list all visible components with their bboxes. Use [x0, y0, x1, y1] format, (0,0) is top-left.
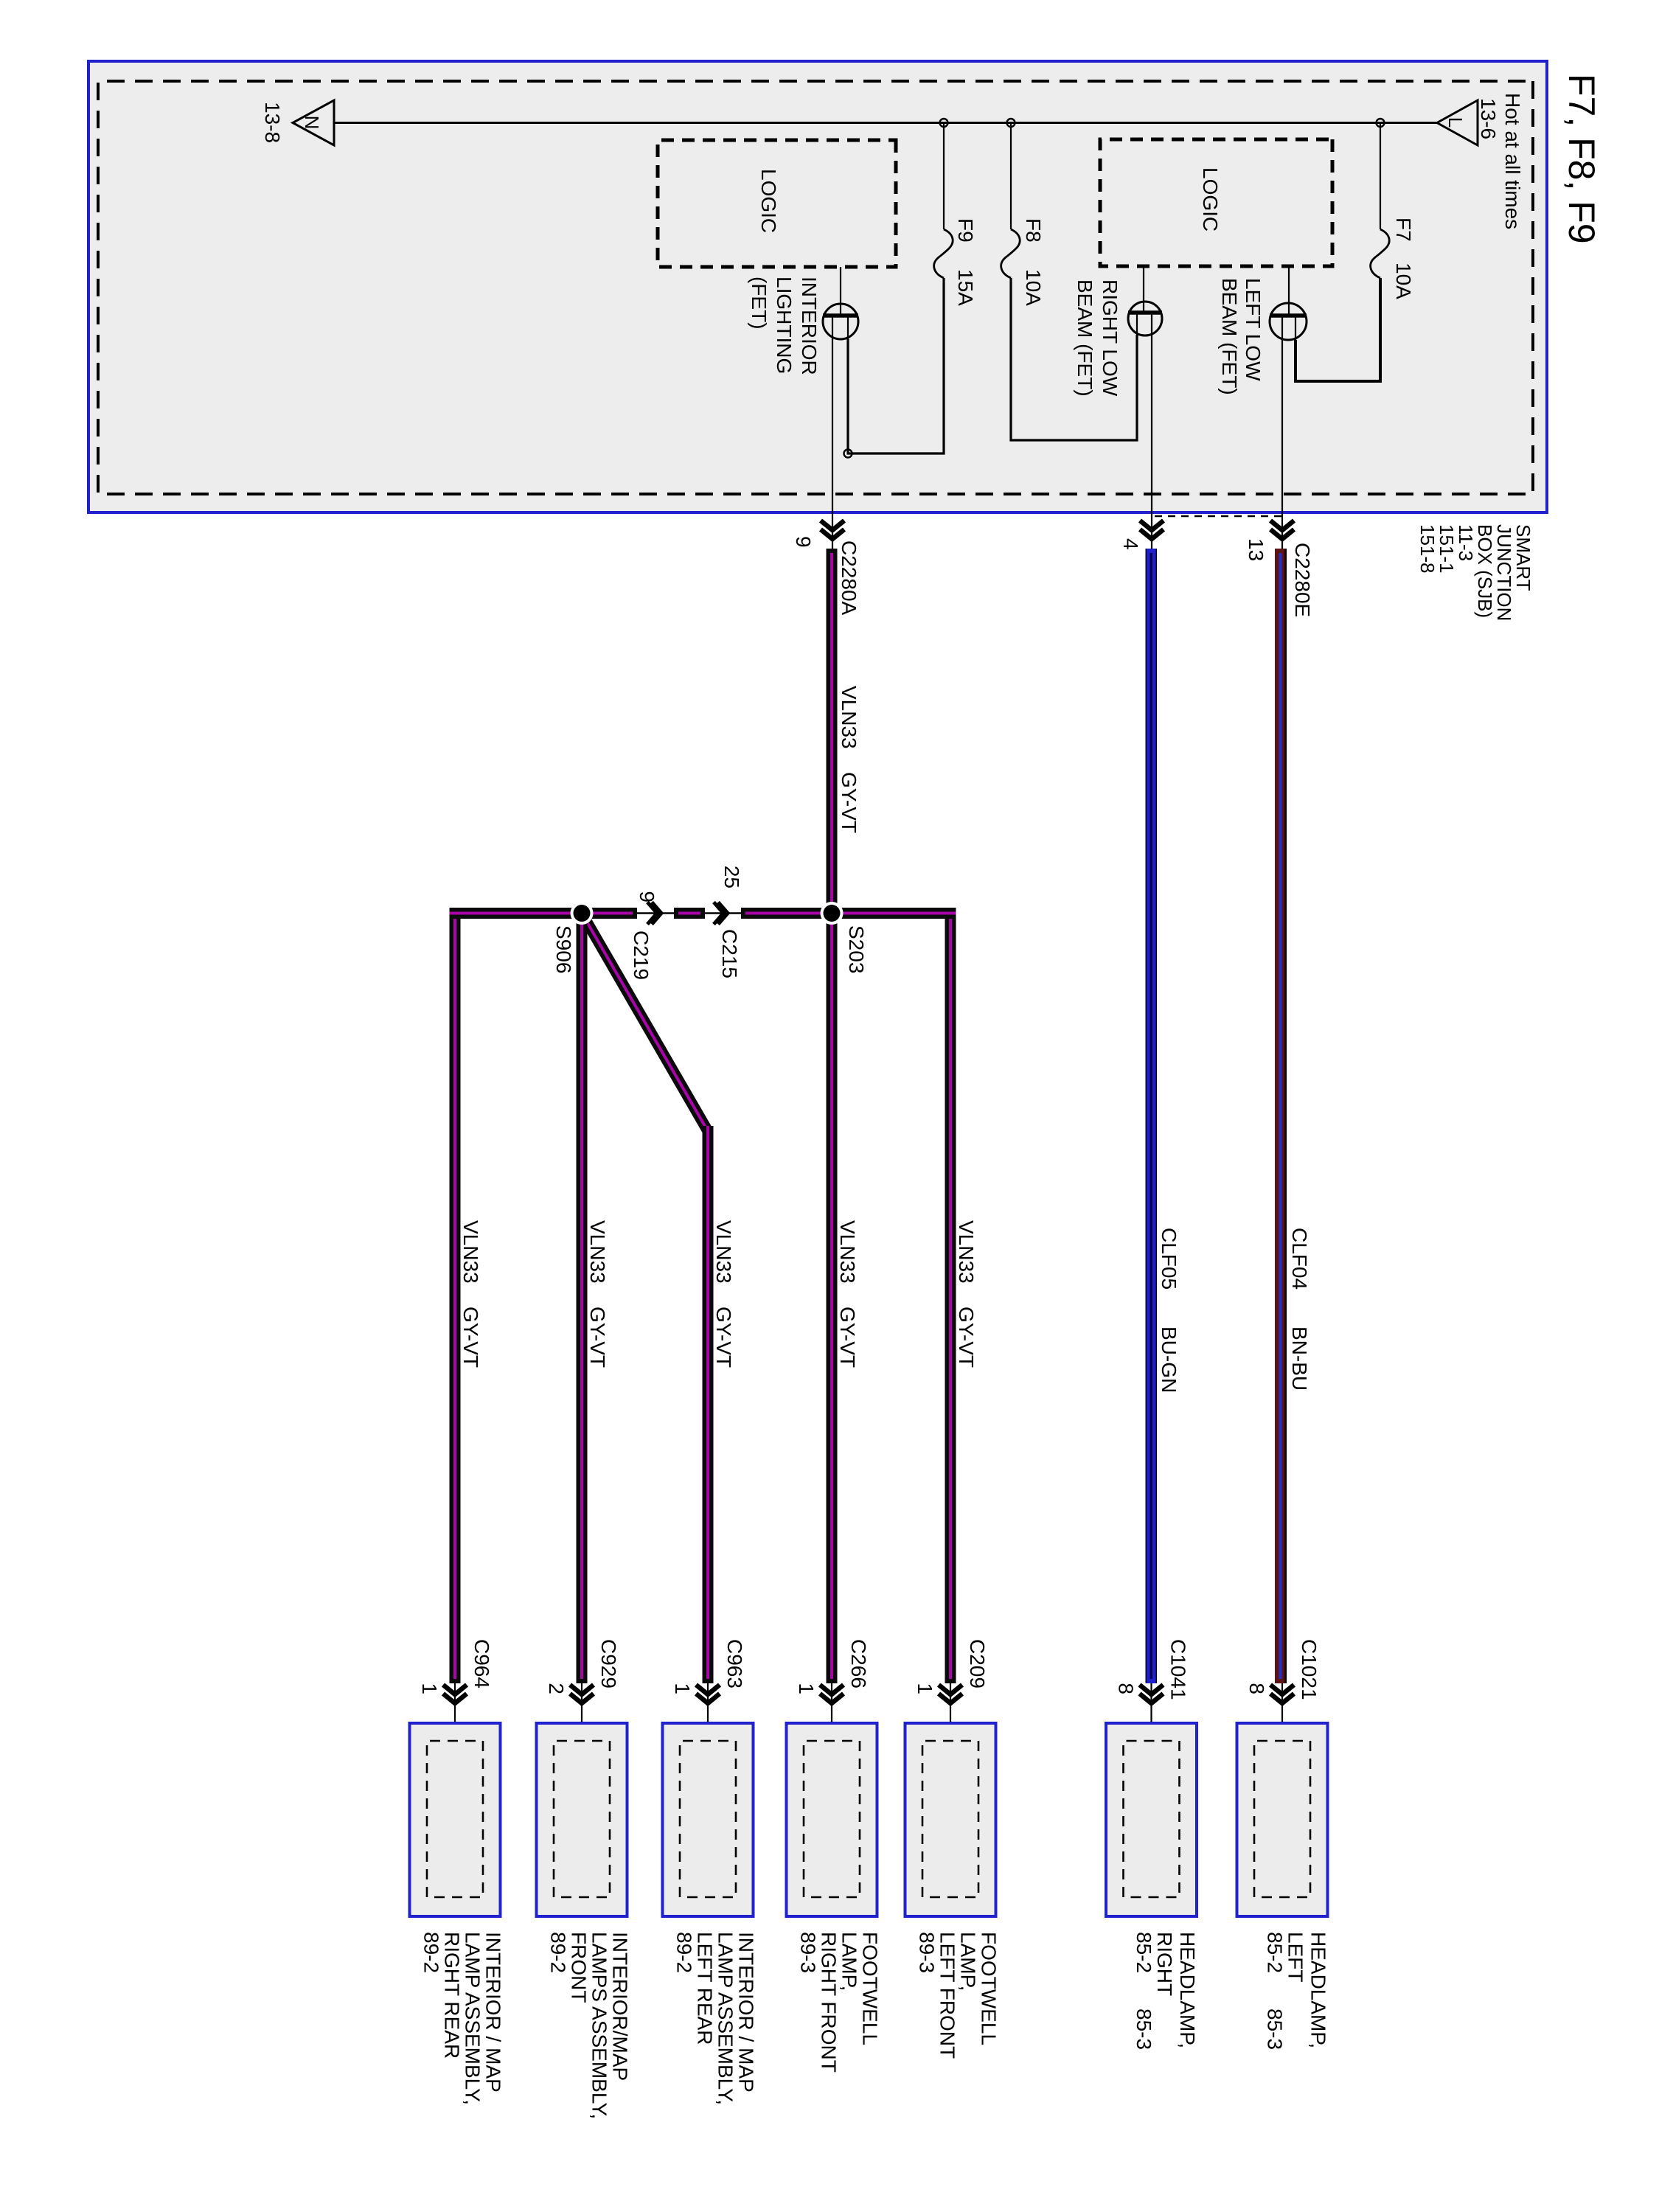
right low beam FET input wire	[1143, 266, 1144, 314]
fuse F7	[1371, 229, 1389, 278]
svg-text:89-3: 89-3	[797, 1932, 820, 1973]
svg-text:CLF04: CLF04	[1288, 1228, 1311, 1290]
svg-text:LOGIC: LOGIC	[1199, 167, 1222, 232]
svg-text:25: 25	[720, 866, 743, 888]
connector C1041 arrow	[1140, 1685, 1164, 1703]
connector C963 arrow	[696, 1685, 720, 1703]
svg-text:C963: C963	[723, 1639, 746, 1688]
inline connector middle segment	[674, 908, 705, 919]
wire bus to fuse F7	[1380, 122, 1381, 229]
svg-text:85-2: 85-2	[1133, 1932, 1155, 1973]
svg-text:FOOTWELL: FOOTWELL	[978, 1932, 1001, 2045]
svg-text:151-8: 151-8	[1416, 524, 1439, 574]
svg-text:8: 8	[1115, 1683, 1138, 1694]
component box C929	[537, 1723, 627, 1916]
component box C209	[905, 1723, 996, 1916]
wire VLN33 branch C963	[703, 1126, 714, 1683]
svg-text:HEADLAMP,: HEADLAMP,	[1176, 1932, 1199, 2048]
svg-text:F7: F7	[1392, 218, 1415, 242]
svg-text:JUNCTION: JUNCTION	[1493, 524, 1515, 621]
svg-text:4: 4	[1119, 538, 1142, 550]
svg-text:BOX (SJB): BOX (SJB)	[1474, 524, 1496, 618]
svg-text:F9: F9	[954, 218, 977, 243]
wire into connector C266	[831, 1683, 832, 1741]
svg-text:VLN33: VLN33	[712, 1220, 735, 1284]
wire into connector C1041	[1150, 1683, 1152, 1741]
svg-text:2: 2	[545, 1683, 568, 1694]
SJB inner dashed border	[98, 81, 1533, 494]
wire bus to fuse F9	[943, 122, 945, 229]
svg-text:C1021: C1021	[1298, 1639, 1321, 1700]
wire into connector C1021	[1281, 1683, 1283, 1741]
component box C1021	[1237, 1723, 1328, 1916]
svg-text:1: 1	[671, 1683, 694, 1694]
interior lighting FET output wire	[832, 316, 833, 549]
interior lighting FET input wire	[840, 267, 841, 316]
wire into connector C963	[707, 1683, 709, 1741]
junction F8 tap	[1007, 119, 1015, 127]
svg-text:89-2: 89-2	[420, 1932, 443, 1973]
wire VLN33 diagonal to C963	[585, 919, 708, 1131]
connector C964 arrow	[443, 1685, 467, 1703]
wire VLN33 branch C964	[450, 919, 461, 1683]
svg-text:89-2: 89-2	[547, 1932, 570, 1973]
svg-text:9: 9	[792, 536, 815, 548]
connector C2280E dashed link	[1152, 515, 1281, 517]
svg-text:GY-VT: GY-VT	[836, 1307, 859, 1368]
svg-text:C2280A: C2280A	[838, 540, 860, 616]
svg-text:89-2: 89-2	[673, 1932, 696, 1973]
junction riser wire VLN33	[741, 908, 956, 919]
svg-text:GY-VT: GY-VT	[459, 1307, 482, 1368]
svg-text:F8: F8	[1022, 218, 1045, 243]
svg-text:10A: 10A	[1022, 269, 1045, 306]
logic box interior lighting	[658, 140, 896, 267]
connector C2280E pin 13 arrow	[1270, 521, 1294, 539]
svg-text:FOOTWELL: FOOTWELL	[859, 1932, 882, 2045]
svg-text:10A: 10A	[1392, 262, 1415, 299]
svg-text:13-6: 13-6	[1477, 98, 1500, 139]
svg-text:RIGHT REAR: RIGHT REAR	[441, 1932, 464, 2059]
fuse F9	[934, 229, 953, 278]
left low beam FET output wire	[1281, 316, 1283, 549]
connector C266 arrow	[820, 1685, 844, 1703]
svg-text:151-1: 151-1	[1436, 524, 1458, 574]
svg-text:C215: C215	[718, 929, 741, 978]
svg-text:C219: C219	[630, 931, 653, 980]
svg-text:89-3: 89-3	[916, 1932, 939, 1973]
svg-text:8: 8	[1245, 1683, 1268, 1694]
left low beam FET input wire	[1288, 266, 1290, 316]
connector C209 arrow	[939, 1685, 962, 1703]
svg-text:LEFT: LEFT	[1284, 1932, 1307, 1982]
wire into connector C964	[454, 1683, 456, 1741]
svg-text:F7, F8, F9: F7, F8, F9	[1561, 74, 1602, 244]
svg-text:C964: C964	[470, 1639, 493, 1688]
component box C1041	[1106, 1723, 1197, 1916]
power bus wire	[334, 122, 1437, 124]
wire F8 to right low beam FET	[1011, 278, 1137, 440]
svg-text:9: 9	[636, 891, 658, 902]
wire VLN33 GY-VT feed	[827, 549, 838, 919]
connector C1021 arrow	[1270, 1685, 1294, 1703]
svg-text:15A: 15A	[954, 269, 977, 306]
svg-text:85-3: 85-3	[1264, 2008, 1287, 2050]
svg-text:FRONT: FRONT	[568, 1932, 591, 2003]
svg-text:GY-VT: GY-VT	[586, 1307, 609, 1368]
svg-text:RIGHT FRONT: RIGHT FRONT	[818, 1932, 841, 2073]
wire VLN33 branch C266	[827, 919, 838, 1683]
inline connector wire link	[637, 912, 741, 914]
junction interior FET corner	[844, 450, 852, 458]
svg-text:Hot at all times: Hot at all times	[1501, 93, 1524, 229]
svg-text:C1041: C1041	[1167, 1639, 1190, 1700]
component box C964	[410, 1723, 501, 1916]
right low beam FET output wire	[1151, 313, 1152, 549]
svg-text:LEFT LOW: LEFT LOW	[1242, 278, 1265, 381]
svg-text:1: 1	[914, 1683, 936, 1694]
junction F9 tap	[940, 119, 948, 127]
splice S203	[821, 902, 844, 925]
svg-text:N: N	[301, 116, 323, 130]
svg-text:1: 1	[795, 1683, 818, 1694]
fuse F8	[1001, 229, 1020, 278]
svg-text:C266: C266	[847, 1639, 870, 1688]
svg-text:LEFT REAR: LEFT REAR	[694, 1932, 717, 2045]
svg-text:LAMP,: LAMP,	[957, 1932, 980, 1991]
svg-text:S203: S203	[845, 925, 868, 973]
right low beam FET	[1128, 302, 1162, 335]
svg-text:85-2: 85-2	[1264, 1932, 1287, 1973]
svg-text:85-3: 85-3	[1133, 2008, 1155, 2050]
svg-text:HEADLAMP,: HEADLAMP,	[1307, 1932, 1330, 2048]
connector C929 arrow	[570, 1685, 594, 1703]
connector C2280A pin 9 arrow	[821, 521, 844, 539]
interior lighting FET	[823, 304, 858, 339]
svg-text:LIGHTING: LIGHTING	[773, 276, 796, 374]
svg-text:BEAM (FET): BEAM (FET)	[1074, 279, 1096, 397]
svg-text:VLN33: VLN33	[836, 1220, 859, 1284]
svg-text:C209: C209	[966, 1639, 989, 1688]
wire VLN33 branch C929	[577, 919, 588, 1683]
svg-text:L: L	[1444, 117, 1467, 128]
inline connector C219 pin 9 arrow	[647, 902, 661, 925]
junction F7 tap	[1377, 119, 1385, 127]
wire CLF05 BU-GN	[1146, 549, 1158, 1683]
svg-text:13: 13	[1245, 538, 1267, 561]
svg-text:LAMP,: LAMP,	[838, 1932, 861, 1991]
svg-text:BEAM (FET): BEAM (FET)	[1218, 278, 1241, 395]
svg-text:GY-VT: GY-VT	[712, 1307, 735, 1368]
svg-text:RIGHT: RIGHT	[1153, 1932, 1176, 1996]
svg-text:LAMP ASSEMBLY,: LAMP ASSEMBLY,	[462, 1932, 484, 2105]
svg-text:CLF05: CLF05	[1158, 1228, 1180, 1290]
svg-text:VLN33: VLN33	[459, 1220, 482, 1284]
power feed triangle L	[1437, 100, 1478, 145]
wire F9 to interior lighting FET	[848, 278, 944, 453]
wire CLF04 BN-BU	[1275, 549, 1287, 1683]
smart junction box SJB outline	[88, 61, 1547, 512]
svg-text:C929: C929	[597, 1639, 620, 1688]
svg-text:LAMP ASSEMBLY,: LAMP ASSEMBLY,	[714, 1932, 737, 2105]
svg-text:VLN33: VLN33	[838, 686, 860, 749]
wire F7 to left low beam FET	[1295, 278, 1380, 381]
splice S906	[571, 902, 594, 925]
svg-text:LAMPS ASSEMBLY,: LAMPS ASSEMBLY,	[588, 1932, 611, 2119]
svg-text:(FET): (FET)	[748, 276, 771, 330]
svg-text:C2280E: C2280E	[1291, 543, 1314, 617]
svg-text:GY-VT: GY-VT	[838, 772, 860, 833]
wire bus to fuse F8	[1010, 122, 1012, 229]
svg-text:LOGIC: LOGIC	[757, 169, 780, 233]
svg-text:1: 1	[418, 1683, 441, 1694]
svg-text:INTERIOR: INTERIOR	[798, 276, 821, 375]
svg-text:S906: S906	[552, 925, 575, 973]
svg-text:SMART: SMART	[1512, 524, 1534, 591]
ground triangle N	[293, 100, 334, 145]
svg-text:INTERIOR / MAP: INTERIOR / MAP	[735, 1932, 758, 2093]
inline connector C215 pin 25 arrow	[714, 902, 728, 925]
logic box low beams	[1100, 139, 1332, 266]
svg-text:13-8: 13-8	[261, 102, 284, 143]
svg-text:GY-VT: GY-VT	[955, 1307, 978, 1368]
svg-text:BN-BU: BN-BU	[1288, 1326, 1311, 1391]
svg-text:BU-GN: BU-GN	[1158, 1326, 1180, 1393]
svg-text:INTERIOR/MAP: INTERIOR/MAP	[609, 1932, 632, 2081]
component box C266	[787, 1723, 877, 1916]
svg-text:11-3: 11-3	[1455, 524, 1477, 561]
wire VLN33 branch C209	[945, 919, 956, 1683]
svg-text:VLN33: VLN33	[586, 1220, 609, 1284]
wire into connector C209	[950, 1683, 951, 1741]
svg-text:RIGHT LOW: RIGHT LOW	[1099, 279, 1121, 397]
svg-text:VLN33: VLN33	[955, 1220, 978, 1284]
svg-text:INTERIOR / MAP: INTERIOR / MAP	[482, 1932, 505, 2093]
component box C963	[663, 1723, 754, 1916]
svg-text:LEFT FRONT: LEFT FRONT	[936, 1932, 959, 2059]
left low beam FET	[1270, 303, 1307, 340]
connector pin 4 arrow	[1140, 521, 1164, 539]
wire into connector C929	[581, 1683, 582, 1741]
